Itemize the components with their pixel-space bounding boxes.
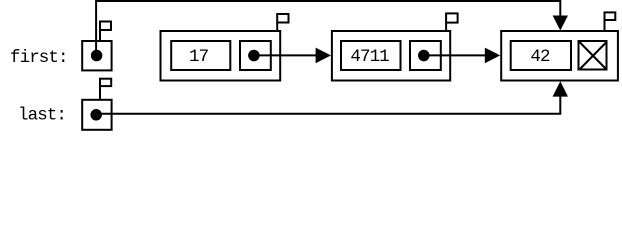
svg-text:17: 17 [189,47,209,67]
svg-text:4711: 4711 [350,47,389,67]
svg-text:last:: last: [18,106,66,126]
svg-text:42: 42 [530,47,550,67]
svg-text:first:: first: [10,48,68,68]
